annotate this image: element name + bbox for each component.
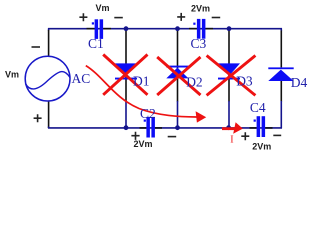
wire branch D3 vertical [228,30,230,102]
svg-text:AC: AC [72,71,91,86]
wire top black stubs at C3 [189,28,213,30]
red curved arrow [86,66,197,117]
svg-text:C2: C2 [140,106,156,121]
node top D3 [227,26,232,31]
capacitor C2 [144,117,155,138]
wire top black stubs at C1 [87,28,112,30]
red current arrow I [222,127,236,130]
svg-text:Vm: Vm [5,70,19,80]
svg-text:C4: C4 [250,100,266,115]
red X over D2 [157,57,200,95]
wire top horizontal [48,28,282,30]
minus sign (C4) [273,134,281,136]
svg-text:2Vm: 2Vm [191,4,210,14]
node bottom D3 [226,125,231,130]
minus sign (C1) [114,17,123,19]
red X over D3 [207,56,256,96]
diode D1 [115,63,137,79]
wire branch D1 vertical [125,30,127,102]
svg-text:Vm: Vm [96,3,110,13]
svg-text:C3: C3 [191,36,207,51]
svg-text:D1: D1 [133,73,150,88]
diode D4 [268,67,293,81]
diode D3 [218,63,240,79]
minus sign (C2) [168,136,177,138]
svg-text:C1: C1 [88,36,104,51]
minus sign (source top) [32,46,41,48]
wire left edge upper [48,28,50,30]
svg-text:D4: D4 [291,75,308,90]
wire right edge [280,28,282,31]
wire bottom horizontal [48,127,282,129]
svg-text:D3: D3 [236,73,253,88]
node top D1 [124,26,129,31]
plus sign (C4) [241,132,249,140]
AC source circle [25,56,70,101]
AC source sine wave [25,72,70,89]
capacitor C4 [254,116,266,137]
node bottom D1 [124,125,129,130]
svg-text:I: I [230,134,233,145]
wire bottom black stubs at C2 [140,127,163,129]
svg-text:2Vm: 2Vm [134,139,153,149]
wire bottom black stubs at C4 [250,127,273,129]
wire branch D2 vertical [177,30,179,102]
capacitor C1 [92,19,103,39]
red X over D1 [103,55,147,95]
svg-text:2Vm: 2Vm [252,142,271,152]
minus sign (C3) [212,17,221,19]
diode D2 [166,66,188,79]
node top D2 [175,26,180,31]
plus sign (source bottom) [34,114,42,122]
plus sign (C3) [177,13,185,21]
capacitor C3 [193,19,205,39]
plus sign (C1) [79,13,87,21]
svg-text:D2: D2 [186,75,203,90]
wire left edge lower [48,101,50,128]
plus sign (C2) [131,132,139,140]
node bottom D2 [175,125,180,130]
